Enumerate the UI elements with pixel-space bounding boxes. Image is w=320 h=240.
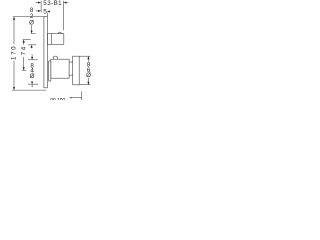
svg-text:Ø: Ø	[86, 72, 91, 79]
svg-text:Ø: Ø	[30, 73, 35, 80]
svg-text:170: 170	[11, 45, 18, 60]
svg-text:5: 5	[43, 8, 47, 15]
svg-text:Ø: Ø	[29, 19, 34, 26]
svg-text:00 100: 00 100	[50, 97, 65, 100]
svg-text:74: 74	[21, 45, 28, 55]
svg-text:53-B1: 53-B1	[43, 0, 62, 7]
